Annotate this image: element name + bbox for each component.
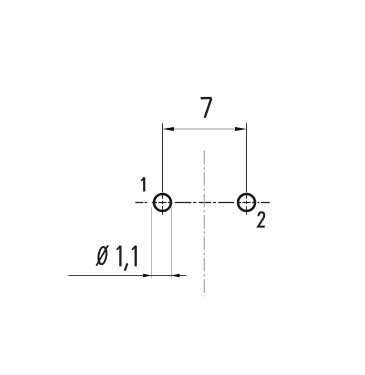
- extension line bottom right (pin1 right tangent): [171, 208, 173, 279]
- diameter symbol of dimension text: [98, 247, 108, 264]
- dimension leader line 1,1: [68, 275, 186, 277]
- extension line right (through pin 2 center): [246, 123, 248, 215]
- extension line left (through pin 1 center): [162, 123, 164, 215]
- vertical centerline (symmetry axis, dash-dot gray): [203, 151, 205, 297]
- dimension text 1,1: [117, 246, 136, 271]
- arrowhead pointing left at right tangent: [171, 274, 179, 278]
- extension line bottom left (pin1 left tangent): [151, 208, 153, 279]
- arrowhead left of dimension 7: [162, 127, 174, 131]
- dimension text 7: [201, 98, 212, 118]
- horizontal centerline through pins (dash-dot): [135, 202, 270, 204]
- pin 2 hole circle: [238, 194, 255, 211]
- arrowhead right of dimension 7: [235, 127, 247, 131]
- pin label 1: [141, 177, 144, 191]
- pin 1 hole circle: [154, 194, 171, 211]
- dimension line 7mm: [173, 128, 236, 130]
- arrowhead pointing right at left tangent: [143, 274, 151, 278]
- pin label 2: [258, 212, 265, 226]
